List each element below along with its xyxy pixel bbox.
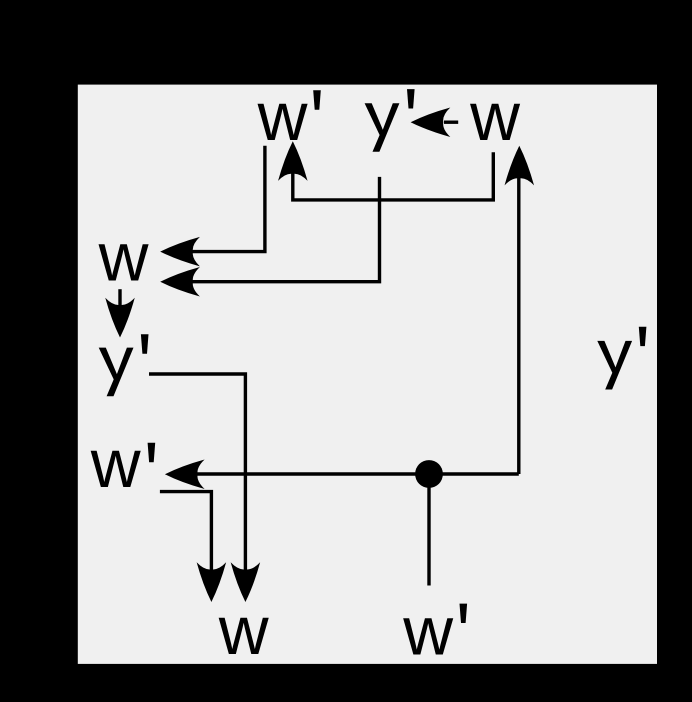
wire stem of small down arrow under node w (left): [118, 289, 121, 309]
wire from node w' (left) down to node w (bottom): [160, 492, 212, 574]
wire from node w' (top) down-left to node w (left): [170, 146, 265, 252]
wire from node y' (left) down to node w (bottom): [149, 374, 245, 574]
node y' (top): letter: [365, 103, 400, 152]
arrowhead left lower at node w (left): [160, 267, 200, 297]
wire horizontal from node w' (left) to long vertical: [174, 472, 519, 475]
wire from junction down to node w' (bottom): [427, 474, 430, 586]
node y' (right): letter: [597, 341, 632, 390]
svg-text:w: w: [98, 219, 149, 296]
svg-text:w: w: [218, 592, 269, 669]
arrowhead up at node w (top): [505, 146, 535, 186]
svg-text:w: w: [469, 78, 520, 155]
node w' (left): prime: [148, 443, 156, 462]
arrowhead left between y' and w (top): [411, 107, 451, 137]
wire bracket under top labels: [293, 152, 494, 200]
node y' (left): letter: [99, 348, 134, 397]
panel background: [78, 85, 657, 664]
arrowhead down small under node w (left): [105, 298, 135, 338]
wire from node y' (top) down-left to node w (left): [170, 177, 380, 282]
arrowhead left upper at node w (left): [160, 237, 200, 267]
node y' (right): prime: [639, 327, 647, 346]
svg-text:w: w: [402, 593, 453, 670]
arrowhead down right at node w (bottom): [231, 562, 261, 602]
arrowhead down left at node w (bottom): [197, 562, 227, 602]
svg-text:w: w: [90, 425, 141, 502]
junction dot: [415, 460, 443, 488]
node y' (top): prime: [407, 89, 415, 108]
arrowhead left at node w' (left): [165, 459, 205, 489]
node w' (bottom): prime: [460, 604, 468, 623]
wire long vertical up to node w (top): [517, 176, 520, 474]
arrowhead up at node w' (top): [278, 141, 308, 181]
svg-text:w: w: [257, 78, 308, 155]
node y' (left): prime: [141, 334, 149, 353]
node w' (top): prime: [313, 90, 321, 109]
wire tail of arrow between y' and w (top): [444, 120, 458, 123]
